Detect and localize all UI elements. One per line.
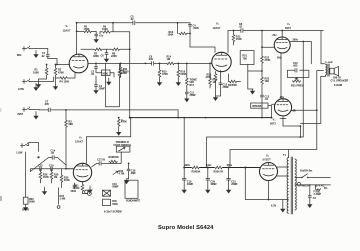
svg-text:50MF: 50MF — [112, 186, 119, 189]
resistor R2 — [54, 64, 64, 76]
output transformer T2 — [321, 31, 334, 77]
resistor R14 series — [166, 56, 212, 65]
V2 plate rail — [228, 31, 323, 53]
capacitor C21 — [226, 168, 238, 193]
ground — [269, 200, 289, 212]
node — [65, 109, 67, 111]
ground — [251, 89, 255, 94]
wiper arrow — [113, 171, 118, 174]
svg-text:4.7K: 4.7K — [218, 170, 223, 173]
wire hump — [31, 158, 67, 172]
box R38 OHMITE — [125, 180, 141, 202]
wire top rail — [77, 22, 190, 24]
fuse F1 — [314, 185, 322, 196]
resistor R4 — [56, 73, 76, 84]
resistor R11 6800 — [119, 63, 129, 77]
node — [76, 31, 78, 33]
wire bus riser — [177, 110, 179, 118]
capacitor C4 25MF — [94, 76, 105, 93]
B+ filter bus — [184, 167, 259, 169]
box R21 — [240, 51, 254, 65]
svg-text:330K: 330K — [93, 55, 99, 58]
pot R25 feedback — [291, 78, 304, 88]
svg-text:+2v: +2v — [99, 35, 104, 38]
svg-text:12AX7: 12AX7 — [63, 29, 71, 33]
capacitor C13 — [260, 85, 269, 118]
svg-text:.02: .02 — [91, 73, 95, 76]
wire transformer top to plate rail — [288, 150, 290, 158]
node — [120, 63, 122, 65]
svg-text:6973: 6973 — [270, 122, 276, 126]
feedback loop C10 — [287, 62, 309, 77]
node — [294, 109, 296, 111]
capacitor stub C23 — [71, 183, 89, 194]
wire screen bus — [207, 137, 304, 168]
svg-text:250K: 250K — [64, 179, 70, 182]
svg-text:500K: 500K — [181, 73, 187, 76]
wire screen — [290, 42, 311, 138]
resistor R34 — [191, 166, 201, 173]
node — [300, 125, 302, 127]
svg-text:2000: 2000 — [71, 190, 77, 193]
wire trem output — [92, 152, 122, 167]
svg-text:2700: 2700 — [206, 76, 212, 79]
capacitor C12 bypass — [216, 71, 230, 97]
svg-text:100K: 100K — [168, 34, 174, 37]
node — [261, 117, 263, 119]
resistor R22 — [261, 55, 271, 64]
capacitor C9 coupling — [146, 56, 167, 66]
ground — [34, 84, 38, 91]
svg-text:25MF: 25MF — [99, 88, 106, 91]
svg-text:6800: 6800 — [123, 71, 129, 74]
svg-text:R25: R25 — [291, 85, 296, 88]
svg-text:MIC: MIC — [17, 54, 22, 57]
svg-text:6-32x7 SCREW: 6-32x7 SCREW — [104, 211, 122, 214]
svg-text:270K: 270K — [265, 59, 271, 62]
resistor R9 loop — [106, 63, 128, 106]
wire — [261, 64, 263, 76]
svg-text:.02: .02 — [41, 55, 45, 58]
svg-text:.05: .05 — [102, 159, 106, 162]
capacitor C3 — [94, 31, 104, 42]
capacitor C6 — [101, 49, 109, 62]
wire heater tap — [245, 168, 268, 200]
svg-text:LOW: LOW — [18, 88, 24, 91]
resistor R10 — [96, 70, 114, 77]
wire V4 plate — [230, 71, 317, 168]
svg-text:On/Off: On/Off — [300, 170, 308, 173]
AC line — [295, 184, 331, 186]
jack J4 — [17, 143, 39, 155]
svg-text:12AX7: 12AX7 — [75, 139, 83, 143]
node — [228, 167, 230, 169]
node — [207, 167, 209, 169]
svg-text:6973: 6973 — [285, 26, 291, 30]
resistor R3 — [65, 110, 74, 166]
svg-text:470K: 470K — [58, 72, 64, 75]
svg-text:360v: 360v — [293, 39, 299, 42]
svg-text:1.4M: 1.4M — [60, 198, 66, 201]
box R39 — [103, 183, 119, 196]
node — [129, 117, 131, 119]
box R40 5600 — [103, 199, 119, 206]
svg-text:20MF: 20MF — [231, 183, 238, 186]
capacitor C18 — [127, 163, 137, 179]
svg-text:5600: 5600 — [112, 203, 118, 206]
wire trem input row — [31, 169, 74, 172]
resistor R32 speed — [109, 156, 119, 163]
edge speck — [0, 108, 1, 112]
capacitor C22 — [308, 184, 317, 207]
wire V4 grid — [268, 104, 275, 117]
V2 cathode resistor R18 — [206, 72, 218, 101]
resistor R29 — [50, 169, 59, 183]
svg-text:10K: 10K — [196, 170, 201, 173]
svg-text:4.7M: 4.7M — [121, 121, 127, 124]
svg-text:10K: 10K — [265, 80, 270, 83]
capacitor C7 — [39, 101, 178, 112]
capacitor C16 — [49, 164, 54, 170]
node — [129, 48, 131, 50]
svg-text:360v: 360v — [227, 164, 233, 167]
svg-text:.005: .005 — [148, 58, 153, 61]
V5 cathode resistor R31 — [73, 182, 84, 193]
wire V4 cathode — [280, 116, 300, 137]
B+ feed riser — [183, 118, 185, 179]
jack J1 — [17, 46, 48, 57]
svg-text:1M: 1M — [54, 176, 57, 179]
resistor R12 — [232, 30, 242, 45]
wire V6 heater — [268, 181, 270, 200]
bottom-left resistor box R36 — [22, 152, 35, 212]
wire V3 grid — [262, 46, 274, 48]
ground — [125, 179, 129, 183]
node — [130, 117, 132, 119]
svg-text:.05: .05 — [51, 152, 55, 155]
node — [316, 109, 318, 111]
pot R16 volume — [176, 63, 186, 86]
bias network stub — [57, 188, 65, 209]
svg-text:Supro Model S6424: Supro Model S6424 — [158, 225, 214, 231]
svg-text:150K: 150K — [43, 176, 49, 179]
svg-text:4.7M: 4.7M — [119, 173, 125, 176]
resistor R1 — [33, 64, 48, 76]
resistor R6 — [100, 22, 114, 34]
dropper chain x262 — [261, 31, 263, 56]
resistor R27 bleeder — [117, 117, 127, 135]
wire V6 plates — [277, 167, 288, 176]
resistor R8 — [111, 48, 120, 58]
svg-text:.005: .005 — [44, 103, 49, 106]
tube V3 6973 — [274, 22, 291, 53]
main B+ bus — [130, 117, 272, 119]
wire to dropping rail — [113, 32, 130, 117]
jack J2 — [18, 77, 54, 91]
svg-text:68K: 68K — [69, 123, 74, 126]
resistor R23 — [261, 76, 270, 85]
capacitor C5 — [130, 16, 135, 25]
svg-text:40MF: 40MF — [210, 183, 217, 186]
svg-text:1500: 1500 — [64, 81, 70, 84]
node grid — [56, 64, 58, 66]
wire cathode bottoms — [39, 76, 56, 85]
capacitor C1 — [41, 52, 57, 64]
capacitor C17 — [97, 159, 106, 166]
wire branch — [248, 65, 262, 90]
capacitor C11 — [185, 86, 197, 102]
node — [95, 63, 97, 65]
lamp B1 — [83, 192, 92, 196]
svg-text:340v: 340v — [206, 164, 212, 167]
capacitor C4 grid — [188, 23, 215, 53]
node — [302, 41, 304, 43]
capacitor C8 — [239, 23, 243, 33]
node — [65, 168, 67, 170]
resistor R13 — [168, 22, 191, 37]
svg-text:500K: 500K — [29, 201, 35, 204]
svg-text:Sw.: Sw. — [309, 170, 314, 173]
svg-text:2 AMP: 2 AMP — [314, 193, 322, 196]
svg-text:CYL SPEAKER: CYL SPEAKER — [331, 80, 349, 83]
ground — [34, 51, 38, 58]
node — [37, 156, 39, 158]
svg-text:To AMP: To AMP — [325, 61, 333, 64]
svg-text:OHMITE: OHMITE — [131, 200, 141, 203]
speaker — [330, 67, 349, 88]
ground — [37, 83, 41, 87]
tube V5 12AX7 — [73, 136, 91, 182]
svg-text:400K: 400K — [113, 156, 119, 159]
svg-text:-20v: -20v — [279, 96, 285, 99]
svg-text:C16: C16 — [49, 164, 54, 167]
resistor R30 — [60, 169, 70, 188]
svg-text:INST: INST — [18, 113, 24, 116]
svg-text:V₁: V₁ — [66, 24, 69, 28]
svg-text:60~: 60~ — [324, 187, 329, 190]
svg-text:8 OHM: 8 OHM — [334, 84, 342, 87]
ground — [43, 187, 47, 194]
wire V1 grid — [57, 64, 69, 66]
tube V2 12AX7 — [212, 22, 231, 72]
label R33 — [119, 170, 125, 176]
svg-text:170K: 170K — [84, 28, 90, 31]
pilot lamp — [297, 182, 309, 187]
svg-text:2MF: 2MF — [131, 172, 136, 175]
node — [183, 167, 185, 169]
capacitor C15 — [38, 164, 43, 170]
svg-text:40MF: 40MF — [187, 183, 194, 186]
label 117V — [315, 184, 329, 190]
wire V5 plate — [86, 118, 130, 164]
svg-text:.0005: .0005 — [193, 27, 200, 30]
box R24 intensity — [251, 103, 268, 108]
svg-text:LOW: LOW — [17, 152, 23, 155]
node — [244, 167, 246, 169]
capacitor C2 — [91, 63, 98, 76]
node — [205, 117, 207, 119]
node — [76, 22, 78, 24]
svg-text:.04: .04 — [312, 197, 316, 200]
jack J3 — [18, 107, 40, 116]
wire V3 cathode to V4 — [280, 53, 282, 99]
svg-text:R17: R17 — [190, 84, 195, 87]
svg-text:5Y3GT: 5Y3GT — [263, 158, 272, 162]
resistor R7 — [93, 48, 103, 58]
svg-text:470K: 470K — [162, 73, 168, 76]
svg-text:C15: C15 — [38, 164, 43, 167]
node — [177, 117, 179, 119]
wire plate row — [88, 62, 146, 64]
resistor R19 grid — [209, 63, 218, 89]
svg-text:.02: .02 — [265, 98, 269, 101]
svg-text:1M: 1M — [167, 58, 170, 61]
svg-text:50Ω: 50Ω — [277, 57, 282, 60]
svg-text:100K: 100K — [102, 28, 108, 31]
svg-text:50K: 50K — [233, 84, 238, 87]
node — [261, 70, 263, 72]
svg-text:6.3V: 6.3V — [271, 205, 276, 208]
tube V1 12AX7 — [63, 24, 89, 73]
svg-text:SPKR: SPKR — [22, 209, 29, 212]
resistor R20 — [228, 74, 241, 87]
wire OT primary bottom — [300, 76, 320, 123]
capacitor C14 — [51, 150, 56, 160]
wire V5 grid riser — [66, 165, 73, 169]
svg-text:MECH: MECH — [302, 184, 310, 187]
resistor R35 — [214, 166, 224, 173]
svg-text:.02: .02 — [130, 18, 134, 21]
edge speck — [0, 196, 2, 201]
wire plate riser — [76, 23, 78, 55]
node — [271, 117, 273, 119]
tube V4 6973 — [270, 99, 292, 126]
node — [261, 46, 263, 48]
ground — [107, 78, 111, 85]
svg-text:-20v: -20v — [272, 34, 278, 37]
power transformer T1 — [283, 154, 296, 214]
svg-text:FOOT SWITCH: FOOT SWITCH — [114, 144, 132, 147]
ground — [34, 112, 38, 119]
svg-text:100K: 100K — [33, 72, 39, 75]
ground — [88, 186, 92, 193]
svg-text:12AX7: 12AX7 — [213, 26, 221, 30]
svg-text:INTENS: INTENS — [252, 105, 262, 108]
svg-text:PRES: PRES — [297, 85, 304, 88]
wire V3 plate to rail — [281, 31, 283, 38]
node — [300, 136, 302, 138]
resistor R5 — [77, 26, 97, 33]
tone row — [81, 48, 130, 50]
node — [183, 117, 185, 119]
switch On/Off — [295, 170, 331, 179]
foot switch box — [114, 140, 132, 152]
pot R15 volume — [158, 63, 169, 86]
capacitor C19 — [182, 178, 194, 193]
tube V6 5Y3GT — [260, 154, 278, 181]
svg-text:25MF: 25MF — [190, 94, 197, 97]
resistor R28 — [39, 169, 49, 183]
wire speaker secondary — [317, 70, 324, 72]
node — [281, 30, 283, 32]
svg-text:70K: 70K — [243, 58, 248, 61]
capacitor C20 — [206, 168, 218, 193]
svg-text:290v: 290v — [185, 164, 191, 167]
svg-text:150K: 150K — [236, 38, 242, 41]
pot R17 tone — [186, 63, 198, 87]
node — [268, 199, 270, 201]
svg-text:.02: .02 — [239, 26, 243, 29]
ground — [54, 85, 58, 89]
svg-text:.005: .005 — [293, 65, 298, 68]
node — [261, 30, 263, 32]
node — [145, 63, 147, 65]
svg-text:220K: 220K — [111, 55, 117, 58]
